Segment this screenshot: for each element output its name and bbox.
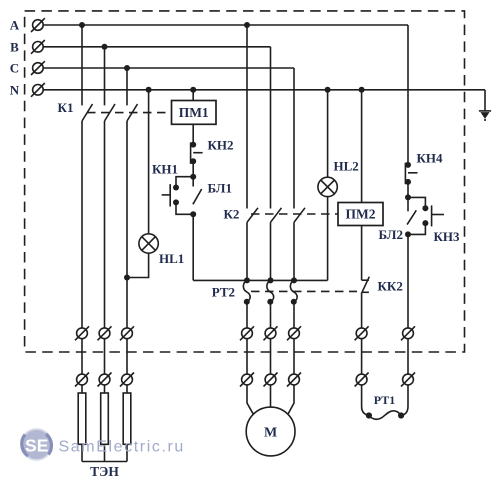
junction: RT2.1 top: [244, 277, 250, 283]
wire: PM1 to KH2: [192, 124, 194, 144]
wire: KH3 to bottom node: [408, 223, 425, 234]
terminal A (input): [31, 18, 45, 32]
heater RT2.3: [290, 280, 297, 301]
junction: RT2.2 top: [268, 277, 274, 283]
wire: row1 to row2 RT1 right: [407, 339, 409, 374]
svg-text:B: B: [10, 39, 19, 54]
wire: row1 to row2 motor2: [270, 339, 272, 374]
watermark logo SE: [21, 429, 52, 460]
wire: terminal to TEN1: [81, 385, 83, 393]
wire: control line to RT2 / HL2: [193, 279, 327, 281]
wire: K2.3 down: [293, 222, 295, 280]
coil PM2: [338, 203, 383, 226]
wire: row1 to row2 col1: [81, 339, 83, 374]
junction: A to K1.1: [79, 22, 85, 28]
lamp HL2: [318, 177, 337, 196]
svg-text:ТЭН: ТЭН: [90, 464, 119, 479]
junction: N to PM2: [359, 87, 365, 93]
heater RT2.2: [267, 280, 274, 301]
heater element TEN1: [78, 393, 86, 444]
contact K2.1 (NO): [247, 208, 258, 223]
junction: N to HL2: [325, 87, 331, 93]
terminal row2 motor3: [287, 373, 301, 387]
contact K1.2 (NO): [105, 104, 116, 121]
terminal row2 RT1 left: [355, 373, 369, 387]
wire: HL2 to control line: [327, 197, 329, 281]
contact KK2 (thermal relay NC): [362, 277, 370, 293]
wire: C to contact K1.3: [126, 68, 128, 105]
heater element TEN2: [101, 393, 109, 444]
wire: N to HL1: [148, 90, 150, 234]
terminal row2 motor1: [240, 373, 254, 387]
svg-text:РТ1: РТ1: [374, 393, 395, 407]
wire: N to HL2: [327, 90, 329, 177]
terminal row1 K2.1: [240, 326, 254, 340]
wire: row1 to row2 motor1: [246, 339, 248, 374]
wire: control chain down: [192, 214, 194, 280]
svg-text:К2: К2: [224, 207, 240, 222]
motor M: [246, 407, 295, 456]
wire: neutral N bus: [43, 89, 485, 91]
wire: PM2 to KK2: [361, 226, 363, 281]
wire: terminal to motor phase 3: [288, 385, 294, 414]
wire: terminal to TEN2: [104, 385, 106, 393]
wire: phase A drop to KH4: [407, 25, 409, 165]
junction: RT2.2 bottom: [267, 299, 273, 305]
wire: phase A bus: [43, 24, 408, 26]
contact K1.1 (NO): [82, 104, 93, 121]
node: RT1 left: [366, 412, 372, 418]
junction: B to K1.2: [102, 44, 108, 50]
wire: terminal to motor phase 2: [270, 385, 272, 407]
svg-text:HL2: HL2: [334, 159, 359, 174]
node: RT1 right: [398, 412, 404, 418]
terminal row1 K1.3: [120, 326, 134, 340]
junction: HL1 return on C column: [124, 275, 130, 281]
terminal row2 motor2: [264, 373, 278, 387]
wire: K2.1 down: [246, 222, 248, 280]
wire: terminal to RT1 left: [362, 385, 369, 416]
svg-text:КК2: КК2: [378, 279, 403, 294]
coil PM1: [172, 101, 217, 125]
svg-text:N: N: [10, 82, 20, 97]
wire: row1 to row2 RT1 left: [361, 339, 363, 374]
svg-text:КН3: КН3: [434, 229, 461, 244]
heater element TEN3: [123, 393, 131, 444]
wire: B to contact K1.2: [104, 47, 106, 106]
wire: K1.1 to terminal: [81, 121, 83, 328]
wire: HL1 to C column: [127, 253, 149, 277]
svg-text:БЛ2: БЛ2: [379, 227, 403, 242]
terminal row2 TEN1: [75, 373, 89, 387]
button KH3 (NO start): [422, 205, 444, 226]
node: BL2/KH3 top junction: [405, 194, 411, 200]
svg-text:ПМ1: ПМ1: [179, 105, 209, 120]
enclosure boundary (dashed panel outline): [25, 11, 465, 352]
terminal row1 K2.2: [264, 326, 278, 340]
junction: RT2.3 bottom: [291, 299, 297, 305]
mechanical link RT2 to KK2: [251, 290, 357, 292]
wire: A to contact K1.1: [81, 25, 83, 105]
wire: terminal to TEN3: [126, 385, 128, 393]
terminal row1 RT1 left: [355, 326, 369, 340]
svg-text:ПМ2: ПМ2: [346, 207, 376, 222]
junction: C to K1.3: [124, 65, 130, 71]
wire: row1 to row2 col3: [126, 339, 128, 374]
heater RT2.1: [243, 280, 250, 301]
junction: RT2.3 top: [291, 277, 297, 283]
svg-text:РТ2: РТ2: [212, 285, 235, 300]
mechanical link K1 to PM1: [87, 112, 172, 114]
node: KH1/BL1 top junction: [190, 174, 196, 180]
svg-text:КН4: КН4: [417, 151, 444, 166]
svg-text:SamElectric.ru: SamElectric.ru: [59, 439, 185, 456]
svg-text:М: М: [264, 426, 277, 441]
node: KH1/BL1 bottom junction: [190, 211, 196, 217]
terminal B (input): [31, 40, 45, 54]
wire: phase B bus: [43, 46, 270, 48]
wire: K2.2 down: [270, 222, 272, 280]
svg-text:КН2: КН2: [208, 138, 234, 153]
contact K2.2 (NO): [271, 208, 282, 223]
wire: node to KH3: [408, 197, 425, 208]
svg-text:HL1: HL1: [159, 251, 184, 266]
wire: KK2 to terminal: [361, 292, 363, 328]
terminal row1 RT1 right: [401, 326, 415, 340]
wire: RT2.1 to terminal: [246, 302, 248, 328]
terminal C (input): [31, 61, 45, 75]
wire: N to coil PM2: [361, 90, 363, 203]
lamp HL1: [139, 234, 158, 253]
junction: RT2.1 bottom: [244, 299, 250, 305]
button KH4 (NC stop): [405, 162, 418, 185]
wire: terminal to RT1 right: [401, 385, 408, 416]
wire: row1 to row2 col2: [104, 339, 106, 374]
svg-text:КН1: КН1: [152, 162, 178, 177]
terminal row1 K1.2: [98, 326, 112, 340]
wire: C drop to contact K2.3: [293, 68, 295, 209]
contact K2.3 (NO): [294, 208, 305, 223]
wire: KH2 to branch node: [192, 161, 194, 176]
earth (grounding arrow): [479, 111, 491, 121]
node: BL2/KH3 bottom junction: [405, 231, 411, 237]
button KH2 (NC stop): [190, 142, 202, 165]
wire: KH4 to branch node: [407, 182, 409, 198]
contact BL2 (PM2 auxiliary NO): [407, 197, 416, 224]
wire: N to coil PM1: [192, 90, 194, 101]
wire: terminal to motor phase 1: [247, 385, 253, 414]
junction: N to PM1: [190, 87, 196, 93]
wire: B drop to contact K2.2: [270, 47, 272, 209]
wire: TEN2 to bus: [104, 444, 106, 461]
button KH1 (NO start): [162, 184, 179, 206]
wire: TEN3 to bus: [126, 444, 128, 461]
wire: node to KH1: [176, 177, 193, 188]
terminal row2 TEN3: [120, 373, 134, 387]
wire: KH1 to bottom node: [176, 202, 193, 214]
wire: A to contact K2.1: [246, 25, 248, 209]
svg-text:К1: К1: [58, 100, 74, 115]
wire: K1.3 to terminal: [126, 121, 128, 328]
contact BL1 (PM1 auxiliary NO): [193, 177, 202, 205]
sensor element RT1: [369, 411, 401, 419]
wire: node down to RT1 right: [407, 234, 409, 328]
wire: TEN1 to bus: [81, 444, 83, 461]
wire: RT2.2 to terminal: [270, 302, 272, 328]
wire: phase C bus: [43, 67, 294, 69]
svg-text:A: A: [10, 18, 20, 33]
wire: row1 to row2 motor3: [293, 339, 295, 374]
wire: TEN common bus: [82, 461, 127, 463]
wire: K1.2 to terminal: [104, 121, 106, 328]
junction: N to HL1: [146, 87, 152, 93]
wire: N down to earth: [484, 90, 486, 111]
wire: RT2.3 to terminal: [293, 302, 295, 328]
terminal row1 K2.3: [287, 326, 301, 340]
svg-text:БЛ1: БЛ1: [208, 181, 232, 196]
junction: A to K2.1: [244, 22, 250, 28]
terminal row2 RT1 right: [401, 373, 415, 387]
contact K1.3 (NO): [127, 104, 138, 121]
mechanical link K2 to PM2: [251, 213, 338, 215]
terminal row1 K1.1: [75, 326, 89, 340]
svg-text:SE: SE: [25, 436, 48, 456]
terminal row2 TEN2: [98, 373, 112, 387]
svg-text:C: C: [10, 61, 19, 76]
terminal N (input): [31, 83, 45, 97]
